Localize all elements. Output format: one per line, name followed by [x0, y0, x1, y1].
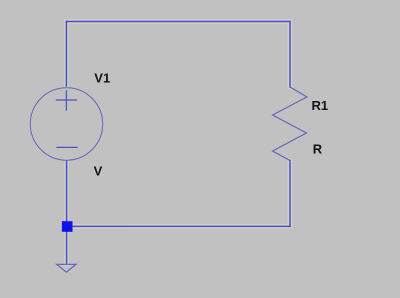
node junction (blue square): [62, 221, 73, 232]
svg-text:R1: R1: [312, 98, 329, 113]
wire: top-left vertical from source to top rail: [65, 22, 67, 87]
svg-text:R: R: [313, 141, 323, 156]
halo under straight wires: [66, 22, 290, 265]
svg-text:V1: V1: [94, 71, 110, 86]
wire: top horizontal rail: [66, 21, 290, 23]
wire: from V1 bottom to node: [66, 161, 68, 221]
resistor R1 zigzag body: [273, 87, 308, 161]
wire: from node down to ground: [66, 232, 68, 264]
wire: right vertical from resistor to bottom rail: [289, 161, 291, 227]
voltage source V1 circle: [30, 88, 102, 160]
plus sign inside V1: [57, 91, 77, 110]
wire: bottom horizontal rail: [73, 225, 291, 227]
wire: right vertical from top rail to resistor R1: [289, 22, 291, 88]
ground symbol: [57, 264, 76, 272]
minus sign inside V1: [57, 146, 77, 148]
svg-text:V: V: [94, 163, 103, 178]
